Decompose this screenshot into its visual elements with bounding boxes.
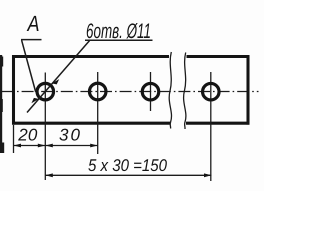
arrowhead 150 left (45, 173, 53, 177)
bar right edge (246, 55, 249, 125)
hole 4 (203, 83, 220, 100)
hole 1 centerline vertical (44, 73, 46, 181)
extension line left edge (13, 125, 15, 153)
note underline shelf (85, 39, 153, 41)
arrowhead 150 right (204, 173, 212, 177)
hole 3 centerline vertical (150, 72, 152, 111)
arrowhead 20 right (38, 144, 46, 148)
bar bottom edge right segment (186, 122, 249, 125)
hole 1 (37, 83, 54, 100)
svg-text:6отв. Ø11: 6отв. Ø11 (86, 20, 151, 43)
label A shelf line (21, 39, 42, 41)
dimension line 5x30=150 (45, 174, 211, 176)
break line left (169, 52, 171, 129)
svg-text:А: А (26, 11, 40, 36)
label A leader (22, 40, 36, 92)
bar top edge right segment (187, 55, 250, 58)
diameter leader line through hole 1 (27, 41, 90, 113)
hole 2 (89, 83, 106, 100)
arrowhead 30 left (45, 144, 53, 148)
hole 2 centerline vertical (97, 72, 99, 154)
scan artifact left border (0, 55, 2, 151)
bar bottom edge left segment (12, 122, 170, 125)
diameter arrowhead lower left (31, 98, 39, 103)
dimension line 20 and 30 (14, 145, 98, 147)
centerline horizontal axis (2, 91, 259, 93)
hole 4 centerline vertical (210, 72, 212, 181)
svg-text:30: 30 (59, 126, 81, 145)
break line right (184, 53, 186, 130)
bar left edge (12, 55, 15, 125)
hole 3 (142, 83, 159, 100)
arrowhead 30 right (90, 144, 98, 148)
diameter arrowhead upper right (52, 79, 60, 84)
bar top edge left segment (12, 55, 169, 58)
svg-text:20: 20 (17, 126, 38, 145)
arrowhead 20 left (14, 144, 22, 148)
svg-text:5 x 30 =150: 5 x 30 =150 (88, 156, 167, 175)
